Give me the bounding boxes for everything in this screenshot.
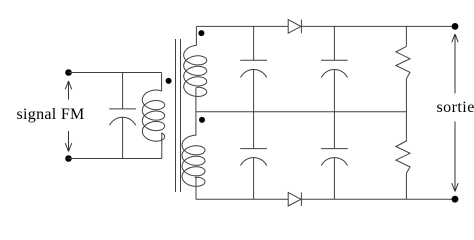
capacitor C2 curved plate xyxy=(241,69,267,77)
wire bottom-left xyxy=(69,158,162,160)
svg-text:sortie: sortie xyxy=(437,99,474,116)
transformer core line right xyxy=(180,39,182,192)
wire branch2 middle xyxy=(333,70,335,149)
wire top rail right xyxy=(301,25,455,27)
capacitor C5 curved plate xyxy=(321,158,347,166)
wire middle rail xyxy=(196,111,407,113)
wire secondary bottom entry xyxy=(195,112,196,135)
wire branch1 bottom lead xyxy=(253,158,255,200)
wire primary top stub xyxy=(160,73,162,91)
capacitor C1 plate xyxy=(109,108,136,110)
wire resistor branch middle xyxy=(405,79,407,141)
wire branch2 top lead xyxy=(333,26,335,60)
arrow down (sortie) xyxy=(452,122,458,192)
diode D1 xyxy=(288,20,301,34)
wire secondary bottom exit xyxy=(195,177,196,199)
wire primary bottom stub xyxy=(160,133,162,159)
svg-text:signal FM: signal FM xyxy=(17,106,85,123)
capacitor C4 curved plate xyxy=(241,158,267,166)
wire bottom rail left xyxy=(196,198,288,200)
wire bottom rail right xyxy=(301,198,455,200)
output terminal top xyxy=(452,23,459,30)
wire branch1 middle xyxy=(253,70,255,149)
wire secondary top corner xyxy=(195,26,197,45)
diode D2 xyxy=(288,192,301,206)
wire top rail left xyxy=(196,25,288,27)
inductor L3 secondary bottom xyxy=(182,135,205,186)
polarity dot primary xyxy=(166,78,172,84)
wire capacitor C1 bottom lead xyxy=(122,117,124,158)
inductor L1 transformer primary xyxy=(142,90,164,141)
transformer core line left xyxy=(175,39,177,192)
inductor L2 secondary top xyxy=(184,45,207,96)
input terminal bottom xyxy=(65,155,72,162)
capacitor C1 curved plate xyxy=(110,117,136,125)
capacitor C3 plate xyxy=(321,59,348,61)
wire secondary top exit xyxy=(195,87,198,111)
resistor R2 xyxy=(396,141,410,173)
resistor R1 xyxy=(396,46,410,78)
arrow up (signal FM) xyxy=(65,81,71,100)
input terminal top xyxy=(65,69,72,76)
wire resistor branch top lead xyxy=(405,26,407,46)
capacitor C3 curved plate xyxy=(321,69,347,77)
arrow down (signal FM) xyxy=(65,131,71,152)
output terminal bottom xyxy=(452,196,459,203)
polarity dot secondary bottom xyxy=(199,117,205,123)
polarity dot secondary top xyxy=(198,30,204,36)
wire branch2 bottom lead xyxy=(333,158,335,200)
wire resistor branch bottom lead xyxy=(405,173,407,199)
capacitor C2 plate xyxy=(240,59,267,61)
wire top-left xyxy=(69,72,162,74)
capacitor C5 plate xyxy=(321,148,348,150)
arrow up (sortie) xyxy=(452,34,458,94)
capacitor C4 plate xyxy=(240,148,267,150)
wire capacitor C1 top lead xyxy=(122,73,124,109)
wire branch1 top lead xyxy=(253,26,255,60)
